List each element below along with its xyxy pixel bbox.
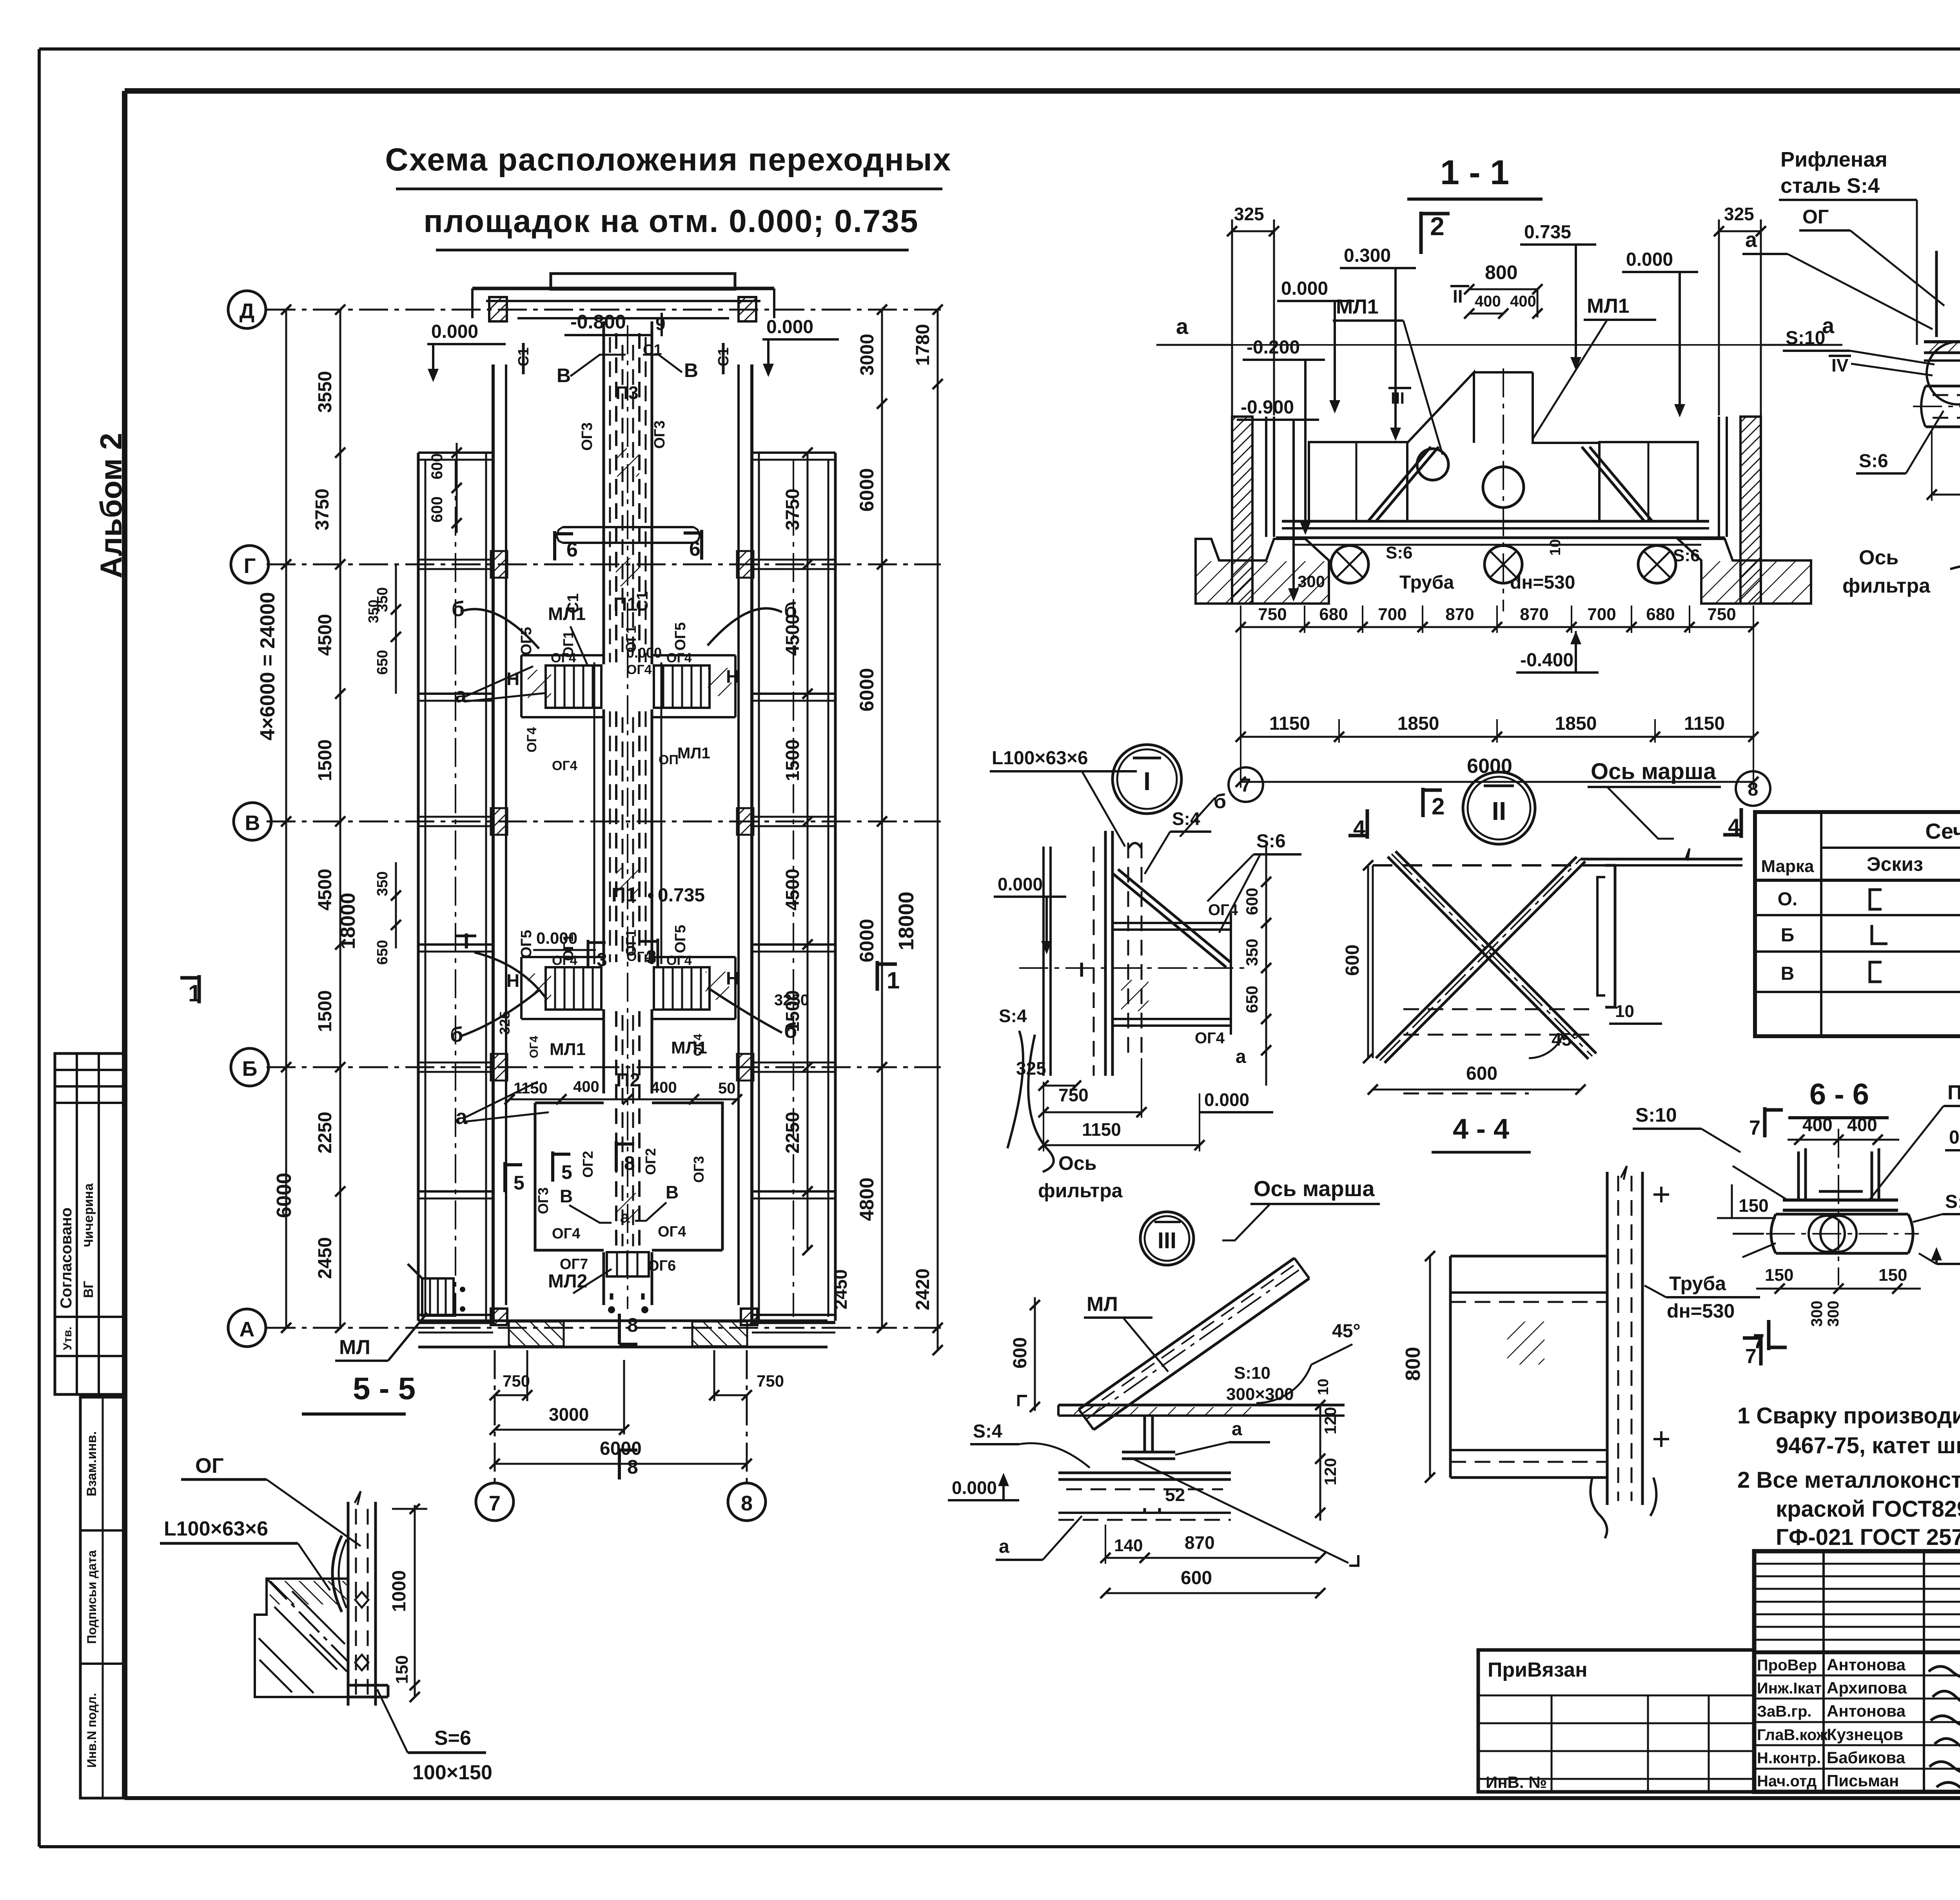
svg-text:МЛ: МЛ [1087, 1293, 1118, 1316]
svg-text:П1: П1 [613, 594, 637, 615]
svg-text:325: 325 [1724, 204, 1754, 224]
svg-text:650: 650 [374, 940, 391, 965]
svg-text:0.000: 0.000 [952, 1478, 997, 1498]
svg-text:750: 750 [1058, 1085, 1089, 1105]
section 1-1 ladder left diag [1368, 447, 1431, 521]
svg-text:400: 400 [1802, 1115, 1833, 1135]
title block signatures squiggles [1929, 1666, 1960, 1678]
node III dim 600 left [1034, 1297, 1036, 1411]
svg-text:600: 600 [1466, 1063, 1497, 1084]
svg-text:О.: О. [1778, 889, 1798, 910]
svg-text:5: 5 [514, 1172, 524, 1194]
grid bubble 8 node II [1736, 771, 1770, 806]
svg-text:I: I [1143, 767, 1151, 796]
svg-text:Инж.Iкат: Инж.Iкат [1757, 1680, 1822, 1697]
svg-text:300×300: 300×300 [1226, 1385, 1294, 1404]
title block outer frame [1754, 1551, 1960, 1792]
svg-text:600: 600 [1243, 888, 1261, 915]
svg-text:0.735: 0.735 [1949, 1127, 1960, 1148]
node I horizontal beams [1112, 922, 1231, 924]
svg-text:ОГ2: ОГ2 [642, 1148, 659, 1175]
svg-text:2 Все металлоконструкции окра: 2 Все металлоконструкции окрасить маслян… [1737, 1467, 1960, 1493]
node I dim right chain [1265, 847, 1267, 1086]
svg-text:10: 10 [1547, 539, 1564, 556]
title block signature rows [1754, 1675, 1960, 1677]
svg-text:а: а [455, 683, 467, 707]
svg-text:325: 325 [497, 1011, 513, 1035]
node II top right rail [1581, 858, 1742, 861]
svg-text:б: б [452, 597, 465, 621]
section 6-6 center vline [1838, 1129, 1839, 1285]
svg-text:Труба: Труба [1399, 572, 1454, 593]
svg-text:В: В [684, 359, 698, 381]
svg-text:9: 9 [655, 314, 666, 334]
svg-text:II: II [1492, 796, 1506, 825]
svg-text:1500: 1500 [782, 740, 803, 781]
svg-text:Антонова: Антонова [1827, 1702, 1906, 1720]
svg-text:Сечение: Сечение [1925, 819, 1960, 843]
svg-text:а: а [620, 1207, 630, 1227]
node II X brace 1 [1376, 857, 1577, 1058]
svg-text:S:10: S:10 [1234, 1363, 1270, 1383]
svg-text:870: 870 [1520, 605, 1548, 624]
grid bubble 8 plan [728, 1483, 766, 1521]
svg-text:III: III [1158, 1228, 1176, 1253]
svg-text:-0.400: -0.400 [1520, 650, 1573, 671]
svg-text:7: 7 [489, 1492, 501, 1515]
element list table grid [1755, 812, 1960, 1036]
svg-text:650: 650 [1243, 986, 1261, 1013]
section 1-1 equipment box left [1309, 442, 1407, 521]
plan axis 8 line [746, 1350, 748, 1483]
svg-text:ОГ4: ОГ4 [552, 953, 577, 968]
svg-text:а: а [999, 1536, 1009, 1557]
svg-text:фильтра: фильтра [1038, 1180, 1123, 1202]
svg-text:10: 10 [1615, 1002, 1634, 1021]
plan grid axis lines [267, 309, 941, 311]
svg-text:-0.800: -0.800 [570, 311, 626, 333]
svg-text:Г: Г [244, 554, 256, 578]
svg-text:ОГ4: ОГ4 [1208, 901, 1238, 919]
plan top corner columns hatched [489, 297, 507, 321]
svg-text:МЛ1: МЛ1 [677, 745, 710, 762]
svg-text:II: II [1453, 286, 1463, 306]
svg-text:0.735: 0.735 [1524, 222, 1571, 243]
svg-text:ОГ5: ОГ5 [672, 622, 689, 651]
svg-text:МЛ1: МЛ1 [1587, 295, 1630, 317]
svg-text:Б: Б [242, 1057, 258, 1081]
svg-text:П3: П3 [615, 383, 639, 403]
svg-text:1500: 1500 [315, 990, 336, 1032]
section 6-6 pipe joint circle [1820, 1216, 1857, 1252]
svg-text:1150: 1150 [1269, 713, 1310, 734]
inventory stamp column [80, 1397, 125, 1798]
section 1-1 dim row 1150-1850 [1241, 736, 1753, 738]
svg-text:0.000: 0.000 [431, 321, 478, 342]
section 4-4 hatch patch [1507, 1322, 1544, 1365]
svg-text:S:10: S:10 [1635, 1104, 1677, 1126]
svg-text:9467-75, катет шва 6мм.: 9467-75, катет шва 6мм. [1776, 1433, 1960, 1458]
svg-text:750: 750 [1707, 605, 1736, 624]
svg-text:0.000: 0.000 [626, 645, 662, 661]
section 1-1 bunker left [1407, 372, 1474, 443]
detail diamonds [355, 1592, 368, 1608]
svg-text:Согласовано: Согласовано [58, 1207, 75, 1309]
svg-text:6000: 6000 [273, 1173, 296, 1218]
svg-text:Схема расположения переходных: Схема расположения переходных [385, 142, 952, 178]
svg-text:1150: 1150 [1082, 1119, 1121, 1140]
svg-text:ОГ4: ОГ4 [666, 953, 692, 968]
node III gamma marks [1018, 1396, 1027, 1406]
svg-text:45°: 45° [1332, 1321, 1361, 1342]
section 6-6 plates [1783, 1198, 1898, 1202]
node I bubble [1112, 745, 1181, 814]
svg-text:400: 400 [651, 1079, 677, 1096]
svg-text:650: 650 [374, 650, 391, 674]
svg-text:В: В [245, 811, 260, 835]
svg-text:Бабикова: Бабикова [1827, 1748, 1906, 1767]
node I wall verticals [1042, 847, 1045, 1076]
svg-text:сталь S:4: сталь S:4 [1780, 174, 1880, 198]
svg-text:4500: 4500 [782, 614, 803, 656]
svg-text:Ось марша: Ось марша [1254, 1176, 1375, 1201]
plan top tank rectangle [551, 274, 735, 289]
node I diagonal brace [1113, 874, 1226, 967]
svg-text:ОГ3: ОГ3 [579, 422, 595, 451]
svg-text:б: б [450, 1023, 463, 1046]
grid bubble D [228, 291, 266, 328]
plan corridor stair stringers dashed [615, 333, 617, 662]
svg-text:800: 800 [1402, 1347, 1425, 1381]
svg-text:ОГ6: ОГ6 [648, 1258, 676, 1274]
plan axis column bases [491, 1309, 507, 1325]
node II bubble [1463, 772, 1535, 844]
svg-text:МЛ1: МЛ1 [550, 1040, 586, 1059]
plan lower big room [535, 1103, 604, 1250]
svg-text:0.000: 0.000 [1204, 1090, 1249, 1110]
svg-text:S:6: S:6 [1386, 543, 1412, 562]
svg-text:Н: Н [506, 970, 519, 991]
detail dims 1000 150 [414, 1505, 416, 1697]
svg-text:В: В [1781, 963, 1795, 984]
svg-text:Нач.отд: Нач.отд [1757, 1773, 1817, 1790]
svg-text:ОГ4: ОГ4 [552, 1226, 580, 1242]
plan middle stair flight right [654, 967, 710, 1010]
plan left dim chain outer [285, 310, 287, 1328]
svg-text:S:4: S:4 [1172, 809, 1200, 829]
svg-text:S:10: S:10 [1786, 328, 1825, 348]
svg-text:700: 700 [1378, 605, 1406, 624]
svg-text:Ось марша: Ось марша [1591, 759, 1716, 784]
svg-text:Инв.N подл.: Инв.N подл. [85, 1693, 99, 1768]
section 2-2 node circle [1927, 342, 1960, 404]
detail curved plate [332, 1536, 342, 1612]
svg-text:ОГ5: ОГ5 [518, 930, 535, 958]
svg-text:ГФ-021 ГОСТ 25729-82.: ГФ-021 ГОСТ 25729-82. [1776, 1525, 1960, 1550]
svg-text:1000: 1000 [389, 1570, 410, 1612]
svg-text:4500: 4500 [315, 614, 336, 656]
svg-text:фильтра: фильтра [1842, 575, 1931, 597]
svg-text:В: В [560, 1186, 573, 1206]
svg-text:140: 140 [1114, 1536, 1143, 1555]
plan left dim chain mid [339, 310, 341, 1328]
svg-text:Взам.инв.: Взам.инв. [84, 1431, 99, 1496]
svg-text:Чичерина: Чичерина [82, 1183, 97, 1247]
svg-text:600: 600 [1342, 945, 1363, 976]
svg-text:8: 8 [624, 1152, 635, 1174]
plan left small dims [395, 564, 397, 694]
svg-text:ОГ4: ОГ4 [666, 651, 692, 665]
node II dashed mid lines [1403, 1008, 1592, 1010]
plan foundation strip bottom [418, 1320, 828, 1322]
svg-text:МЛ1: МЛ1 [1336, 296, 1379, 318]
svg-text:dн=530: dн=530 [1667, 1300, 1735, 1322]
plan right filter-cell band [834, 453, 837, 1321]
svg-text:S=6: S=6 [434, 1727, 471, 1750]
svg-text:ВГ: ВГ [81, 1281, 96, 1298]
svg-text:ОГ4: ОГ4 [551, 651, 576, 665]
svg-text:600: 600 [428, 497, 446, 523]
svg-text:1500: 1500 [782, 990, 803, 1032]
svg-text:0.000: 0.000 [1281, 278, 1328, 299]
node III hatched pad [1074, 1407, 1262, 1415]
svg-text:Ось: Ось [1058, 1152, 1096, 1174]
svg-text:П3: П3 [1947, 1081, 1960, 1104]
svg-text:ОГ: ОГ [195, 1454, 224, 1478]
svg-text:10: 10 [1315, 1379, 1332, 1395]
detail channel column [347, 1502, 350, 1706]
svg-text:6000: 6000 [856, 919, 878, 962]
svg-text:Марка: Марка [1761, 857, 1814, 876]
svg-text:S:6: S:6 [1673, 546, 1700, 565]
svg-text:ПроВер: ПроВер [1757, 1657, 1817, 1674]
svg-text:В: В [557, 364, 571, 386]
section 1-1 pipes under platform [1331, 546, 1368, 583]
svg-text:ОГ7: ОГ7 [560, 1256, 588, 1273]
svg-text:0.000: 0.000 [998, 874, 1043, 894]
svg-text:1150: 1150 [1684, 713, 1725, 734]
node III base plates [1058, 1472, 1231, 1474]
svg-text:3: 3 [597, 950, 607, 970]
section 1-1 a-a cut line [1156, 344, 1233, 346]
svg-text:б: б [1214, 790, 1226, 813]
svg-text:Архипова: Архипова [1827, 1679, 1907, 1697]
svg-text:Утв.: Утв. [61, 1327, 74, 1350]
section 2-2 platform strip [1924, 340, 1960, 343]
svg-text:300: 300 [1808, 1301, 1826, 1327]
section 1-1 top circle small [1417, 449, 1448, 480]
svg-text:Д: Д [240, 299, 254, 323]
svg-text:150: 150 [392, 1655, 412, 1684]
plan right dim chain mid [881, 310, 883, 1328]
svg-text:350: 350 [365, 600, 381, 623]
svg-text:IV: IV [1831, 355, 1849, 375]
svg-text:Б: Б [1781, 925, 1795, 946]
svg-text:1: 1 [887, 967, 900, 994]
svg-text:ОГ2: ОГ2 [580, 1151, 596, 1178]
svg-text:Альбом 2: Альбом 2 [94, 433, 128, 578]
grid bubble A [228, 1309, 266, 1347]
svg-text:1850: 1850 [1555, 713, 1597, 734]
svg-text:400: 400 [573, 1078, 599, 1095]
plan middle stair flight left [546, 967, 601, 1010]
svg-text:600: 600 [428, 453, 446, 480]
grid bubble B [231, 1048, 269, 1086]
svg-text:2: 2 [1430, 212, 1445, 241]
section 1-1 left wall hatched [1232, 417, 1252, 604]
plan upper stair flight left [546, 665, 601, 708]
svg-text:6 - 6: 6 - 6 [1809, 1078, 1869, 1111]
svg-text:2450: 2450 [315, 1237, 336, 1279]
svg-text:800: 800 [1485, 261, 1517, 283]
section 1-1 platform beams [1282, 520, 1709, 523]
section 1-1 mid circle [1483, 467, 1524, 508]
svg-text:ЗаВ.гр.: ЗаВ.гр. [1757, 1703, 1812, 1720]
svg-text:S:6: S:6 [1256, 831, 1286, 852]
svg-text:а: а [1232, 1419, 1242, 1440]
svg-text:52: 52 [1165, 1485, 1185, 1505]
svg-text:300: 300 [1825, 1301, 1842, 1327]
section 1-1 dim row small [1241, 626, 1753, 628]
svg-text:18000: 18000 [895, 892, 918, 950]
svg-text:ОГ3: ОГ3 [535, 1187, 551, 1214]
svg-text:S:6: S:6 [1945, 1191, 1960, 1212]
section 6-6 posts [1797, 1151, 1800, 1198]
grid bubble 7 node I [1229, 767, 1263, 802]
svg-text:7: 7 [1749, 1117, 1760, 1139]
plan central corridor walls [603, 321, 605, 664]
svg-text:ОГ3: ОГ3 [691, 1156, 707, 1183]
svg-text:ОГ5: ОГ5 [672, 925, 689, 953]
svg-text:600: 600 [1181, 1568, 1212, 1588]
plan corridor extra dashed lines [609, 337, 611, 662]
node III top beam [1058, 1404, 1345, 1407]
svg-text:ОГ4: ОГ4 [691, 1034, 704, 1056]
svg-text:4500: 4500 [315, 869, 336, 911]
svg-text:0.000: 0.000 [1626, 249, 1673, 270]
svg-text:ОГ4: ОГ4 [626, 662, 652, 677]
plan right dim chain outer [937, 310, 939, 1350]
svg-text:ОП: ОП [659, 752, 679, 767]
svg-text:ОГ4: ОГ4 [626, 949, 652, 964]
svg-text:Подписьи дата: Подписьи дата [85, 1550, 99, 1644]
svg-text:ОГ4: ОГ4 [552, 758, 577, 773]
svg-text:I: I [1079, 959, 1084, 981]
svg-text:III: III [1391, 389, 1405, 407]
plan right dim chain inner [807, 453, 809, 1250]
svg-text:ПриВязан: ПриВязан [1488, 1659, 1588, 1681]
svg-text:18000: 18000 [337, 893, 359, 950]
svg-text:dн=530: dн=530 [1510, 572, 1575, 593]
svg-text:ИнВ. №: ИнВ. № [1486, 1773, 1547, 1791]
svg-text:I: I [463, 928, 470, 953]
svg-text:600: 600 [1010, 1337, 1031, 1369]
svg-text:300: 300 [1298, 572, 1325, 591]
svg-text:Рифленая: Рифленая [1780, 148, 1887, 171]
plan middle landing lines [521, 956, 604, 958]
section 2-2 pipe [1921, 386, 1960, 427]
svg-text:Эскиз: Эскиз [1867, 853, 1923, 875]
svg-text:0.300: 0.300 [1344, 245, 1391, 266]
svg-text:8: 8 [627, 1456, 638, 1478]
svg-text:680: 680 [1646, 605, 1675, 624]
node I axis dashdot [1019, 967, 1247, 969]
svg-text:325: 325 [1234, 204, 1264, 224]
grid bubble 7 plan [476, 1483, 514, 1521]
plan upper landing lines [521, 654, 604, 656]
svg-text:4800: 4800 [856, 1177, 878, 1221]
grid bubble V [234, 803, 271, 840]
svg-text:а: а [1745, 228, 1757, 252]
plan cell centerlines [455, 460, 456, 1317]
svg-text:1150: 1150 [514, 1080, 548, 1097]
svg-text:Кузнецов: Кузнецов [1827, 1725, 1903, 1744]
svg-text:А: А [240, 1318, 255, 1341]
svg-text:6000: 6000 [856, 668, 878, 711]
svg-text:50: 50 [718, 1080, 736, 1097]
svg-text:П1: П1 [612, 884, 637, 906]
svg-text:2250: 2250 [315, 1112, 336, 1154]
node I hatch patch [1121, 980, 1149, 1011]
svg-text:Антонова: Антонова [1827, 1655, 1906, 1674]
svg-text:7: 7 [1241, 775, 1251, 796]
svg-text:4500: 4500 [782, 869, 803, 911]
svg-text:а: а [1176, 314, 1189, 339]
svg-text:5: 5 [561, 1161, 572, 1183]
svg-text:П2: П2 [616, 1070, 640, 1091]
svg-text:750: 750 [1258, 605, 1287, 624]
svg-text:2450: 2450 [830, 1269, 851, 1309]
plan hatched cross patches [616, 448, 639, 477]
svg-text:1 - 1: 1 - 1 [1440, 153, 1509, 192]
title block upper-left mini table [1754, 1563, 1960, 1565]
svg-text:870: 870 [1185, 1532, 1215, 1553]
svg-text:400: 400 [1475, 293, 1501, 310]
svg-text:В: В [666, 1182, 679, 1202]
section 1-1 right footing [1678, 539, 1811, 604]
svg-text:150: 150 [1765, 1265, 1793, 1285]
detail base plate [348, 1684, 388, 1687]
node III inclined stringer [1079, 1258, 1294, 1409]
section 1-1 ladder right diag [1582, 447, 1644, 521]
svg-text:Н: Н [726, 666, 739, 687]
plan room divider lines [418, 451, 493, 454]
svg-text:L100×63×6: L100×63×6 [164, 1517, 268, 1540]
svg-text:350: 350 [1243, 939, 1261, 966]
plan wall pilaster blocks [491, 551, 507, 578]
section 6-6 leaders left [1733, 1166, 1788, 1200]
svg-text:2420: 2420 [913, 1269, 933, 1311]
svg-text:6000: 6000 [600, 1438, 642, 1459]
privyazan box [1478, 1650, 1754, 1792]
svg-text:120: 120 [1321, 1458, 1339, 1485]
section 4-4 bottom pipe break [1590, 1478, 1656, 1538]
section 1-1 left footing [1196, 539, 1329, 604]
svg-text:3750: 3750 [782, 489, 803, 531]
plan pipe stub at grid G [563, 526, 694, 528]
svg-text:ГлаВ.кож: ГлаВ.кож [1757, 1726, 1828, 1744]
svg-text:Труба: Труба [1669, 1273, 1726, 1294]
svg-text:6: 6 [689, 538, 701, 560]
svg-text:ОГ4: ОГ4 [524, 727, 539, 752]
plan upper stair flight right [654, 665, 710, 708]
svg-text:МЛ1: МЛ1 [548, 604, 586, 624]
svg-text:2250: 2250 [782, 1112, 803, 1154]
plan top wall [472, 287, 774, 290]
approval stamp table [55, 1053, 125, 1394]
node II right channel bracket [1605, 865, 1615, 1007]
node I post verticals dashed [1127, 843, 1129, 1058]
